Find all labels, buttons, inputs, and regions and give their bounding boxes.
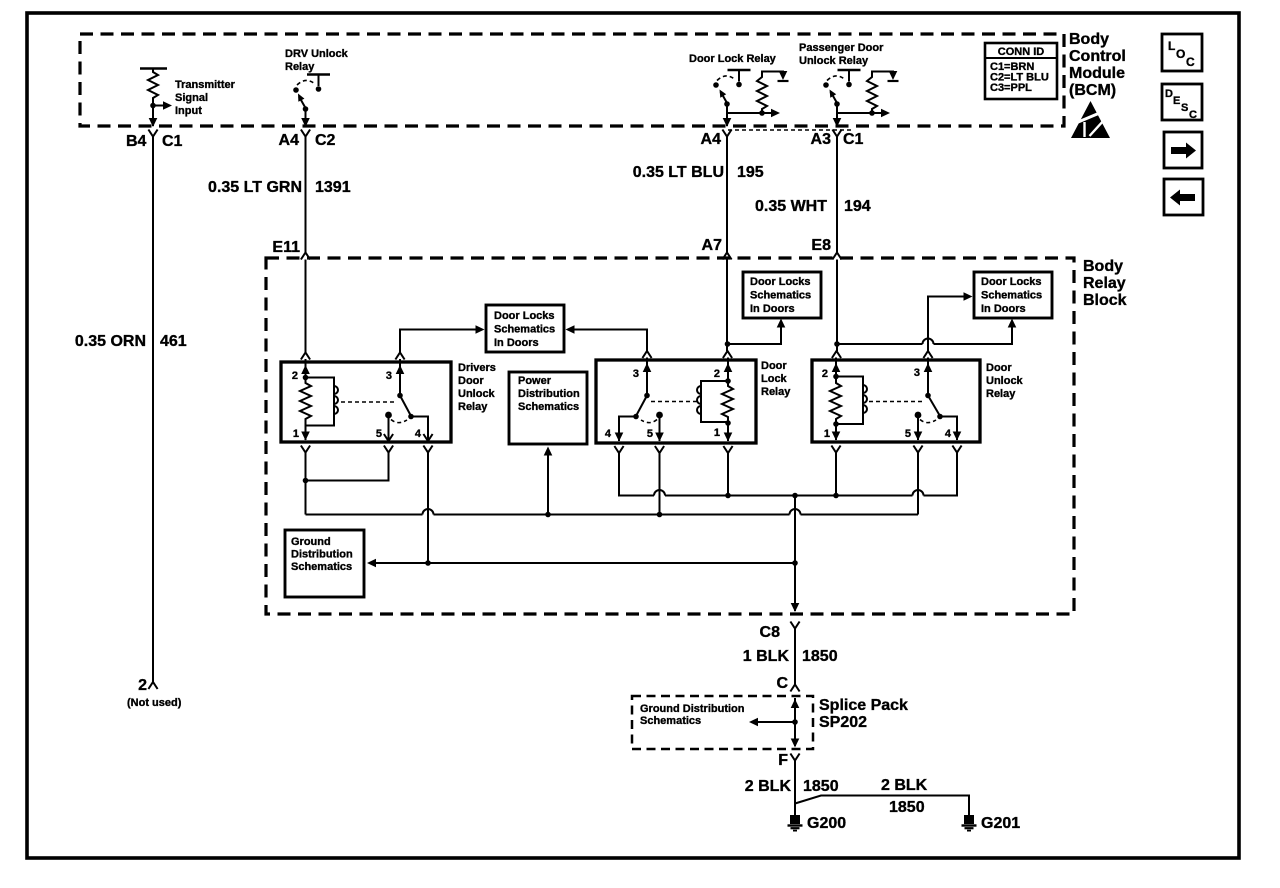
svg-text:D: D [1165, 88, 1173, 100]
U2 coil [697, 378, 733, 441]
svg-text:4: 4 [945, 428, 952, 440]
wire 0.35 LT GRN 1391 [305, 137, 307, 253]
nav button next (right arrow) [1164, 132, 1202, 168]
svg-text:C: C [1189, 109, 1197, 121]
label: Body Control Module (BCM) [1069, 31, 1126, 99]
U2 pin 5 contact [647, 412, 664, 453]
box: Ground Distribution Schematics [285, 530, 364, 597]
U3 pin 5 contact [905, 412, 923, 453]
wire: B4 to connector, down arrow into BCM border [149, 106, 158, 128]
wire: 0.35 ORN 461 [152, 137, 154, 683]
ESD sensitive device symbol [1071, 101, 1110, 138]
label 0.35 WHT 194 [755, 198, 871, 215]
node 2 (Not used) terminal [127, 677, 182, 709]
wire 0.35 WHT 194 [836, 137, 838, 253]
svg-text:In Doors: In Doors [981, 303, 1026, 315]
label Drivers Door Unlock Relay [458, 362, 496, 413]
wire: U2 pin1 down to ground bus [727, 453, 729, 496]
svg-text:Relay: Relay [986, 388, 1016, 400]
svg-text:Relay: Relay [458, 401, 488, 413]
svg-text:5: 5 [647, 428, 653, 440]
svg-text:In Doors: In Doors [750, 303, 795, 315]
svg-text:Transmitter: Transmitter [175, 79, 236, 91]
node C connector [776, 675, 799, 692]
label Door Lock Relay [761, 360, 791, 398]
svg-text:Signal: Signal [175, 92, 208, 104]
svg-text:Control: Control [1069, 48, 1126, 65]
U2 pin 3 and switch [605, 351, 652, 453]
splice pack internals: Ground Distribution Schematics note and arrow [640, 698, 799, 748]
Body Control Module (BCM) dashed box [80, 34, 1064, 126]
U3 pin 3 and switch [914, 351, 962, 453]
U3 pin 1 [824, 428, 841, 453]
svg-text:C3=PPL: C3=PPL [990, 82, 1032, 94]
wire: U1 pin4 down to ground line [427, 453, 429, 564]
svg-text:Drivers: Drivers [458, 362, 496, 374]
svg-text:Distribution: Distribution [291, 549, 353, 561]
wire: A4 down arrow into BCM border [723, 109, 732, 127]
node A7 connector [702, 237, 732, 260]
node A4 connector [701, 130, 732, 149]
svg-text:1850: 1850 [889, 799, 925, 816]
svg-text:C: C [776, 675, 788, 692]
wire: U1 pin3 to left door locks box with right arrow [400, 325, 485, 352]
U1 mechanical dashed link [341, 401, 396, 403]
wire: U2 pin5 down to power bus [659, 453, 661, 515]
U1 coil [300, 375, 338, 440]
svg-text:5: 5 [376, 428, 382, 440]
Splice Pack SP202 dashed box [632, 696, 813, 749]
svg-text:0.35 LT BLU: 0.35 LT BLU [633, 164, 724, 181]
svg-text:Unlock: Unlock [458, 388, 496, 400]
label Splice Pack SP202 [819, 697, 908, 731]
wire: A7 to U2 pin 2 with branch up arrow into middle box [723, 260, 785, 359]
svg-text:C2: C2 [315, 132, 336, 149]
svg-text:Block: Block [1083, 292, 1127, 309]
svg-text:B4: B4 [126, 133, 147, 150]
svg-text:Door: Door [761, 360, 787, 372]
svg-text:Door Locks: Door Locks [750, 276, 811, 288]
svg-text:Lock: Lock [761, 373, 788, 385]
svg-text:E8: E8 [811, 237, 831, 254]
U2 mechanical dashed link [651, 401, 697, 403]
wire: A4/C2 down arrow into BCM border [301, 109, 310, 127]
svg-text:A7: A7 [702, 237, 723, 254]
svg-text:Splice Pack: Splice Pack [819, 697, 908, 714]
U1 pin 3 and switch [386, 353, 433, 453]
label 2 BLK 1850 (branch) [881, 777, 928, 816]
svg-text:G200: G200 [807, 815, 846, 832]
wire E11 to relay pin 2 [301, 260, 310, 384]
wire: U3 pin1 down to ground bus [835, 453, 837, 496]
ground G200 [788, 815, 847, 832]
node A4/C2 connector [279, 130, 336, 150]
svg-text:Ground: Ground [291, 536, 331, 548]
svg-text:A4: A4 [701, 131, 722, 148]
svg-text:A3: A3 [811, 131, 832, 148]
svg-text:2: 2 [292, 370, 298, 382]
wire: U3 pin3 up over wire then right arrow into right box [928, 292, 973, 351]
svg-text:In Doors: In Doors [494, 337, 539, 349]
svg-text:0.35 LT GRN: 0.35 LT GRN [208, 179, 302, 196]
svg-text:(Not used): (Not used) [127, 697, 182, 709]
box: Power Distribution Schematics [509, 372, 587, 444]
U3 contact dashed arc [920, 420, 936, 423]
U2 pin 1 [714, 427, 733, 453]
svg-text:Schematics: Schematics [518, 401, 579, 413]
svg-text:1 BLK: 1 BLK [743, 648, 790, 665]
nav button LOC [1162, 34, 1202, 71]
svg-text:0.35 WHT: 0.35 WHT [755, 198, 827, 215]
label 0.35 ORN 461 [75, 333, 187, 350]
svg-text:F: F [778, 752, 788, 769]
box: Door Locks Schematics In Doors (middle) [743, 272, 821, 318]
svg-text:Door: Door [458, 375, 484, 387]
label 2 BLK 1850 [745, 778, 839, 795]
svg-text:Relay: Relay [761, 386, 791, 398]
svg-text:E: E [1173, 95, 1180, 107]
box: Door Locks Schematics In Doors (right) [974, 272, 1052, 318]
svg-text:G201: G201 [981, 815, 1020, 832]
svg-text:Distribution: Distribution [518, 388, 580, 400]
U2 contact dashed arc [641, 420, 657, 423]
svg-text:1391: 1391 [315, 179, 351, 196]
svg-text:Body: Body [1069, 31, 1109, 48]
svg-text:Relay: Relay [285, 61, 315, 73]
relay U1: Drivers Door Unlock Relay box [281, 362, 451, 442]
svg-text:Schematics: Schematics [291, 561, 352, 573]
svg-text:Schematics: Schematics [494, 324, 555, 336]
svg-text:Door Lock Relay: Door Lock Relay [689, 53, 777, 65]
label: Transmitter Signal Input with arrow [150, 79, 235, 117]
svg-text:E11: E11 [272, 239, 300, 256]
U3 mechanical dashed link [869, 401, 924, 403]
label: Body Relay Block [1083, 258, 1127, 309]
nav button back (left arrow) [1164, 179, 1203, 215]
wire: power bus (bus2) [306, 509, 919, 517]
svg-text:Door Locks: Door Locks [494, 310, 555, 322]
box: Door Locks Schematics In Doors (left) [486, 305, 564, 352]
wire: U2 pin3 to left door locks box with left arrow [566, 325, 648, 351]
svg-text:3: 3 [914, 367, 920, 379]
svg-text:C1: C1 [162, 133, 183, 150]
U1 pin 5 contact [376, 412, 393, 453]
svg-text:2 BLK: 2 BLK [881, 777, 928, 794]
ground G201 [962, 815, 1021, 832]
U3 coil [830, 374, 867, 440]
svg-text:Passenger Door: Passenger Door [799, 42, 884, 54]
svg-text:Module: Module [1069, 65, 1125, 82]
svg-text:Door: Door [986, 362, 1012, 374]
svg-text:Schematics: Schematics [981, 290, 1042, 302]
svg-text:Ground Distribution: Ground Distribution [640, 703, 745, 715]
connector group dotted line A4-A3 [728, 129, 853, 131]
CONN ID table [985, 43, 1057, 99]
svg-text:4: 4 [415, 428, 422, 440]
wire: ground line to ground distribution box with left arrow [367, 559, 798, 568]
wire: ground bus (bus1) [619, 453, 957, 499]
node C8 connector [760, 622, 800, 642]
svg-text:C8: C8 [760, 624, 781, 641]
node F connector [778, 752, 799, 769]
resistor: transmitter signal input [140, 69, 167, 106]
wire: A3/C1 down arrow into BCM border [833, 109, 842, 127]
svg-text:1: 1 [714, 427, 720, 439]
svg-text:3: 3 [386, 370, 392, 382]
label Door Unlock Relay [986, 362, 1024, 400]
wire: power feed up arrow into power box [544, 447, 553, 518]
svg-text:Power: Power [518, 375, 552, 387]
svg-text:Input: Input [175, 105, 202, 117]
node A3/C1 connector [811, 130, 864, 149]
wire 2 BLK 1850 to G200 [794, 761, 796, 818]
svg-text:(BCM): (BCM) [1069, 82, 1116, 99]
wire 1 BLK 1850 [794, 629, 796, 685]
svg-text:C1: C1 [843, 131, 864, 148]
relay U2: Door Lock Relay box [596, 360, 756, 443]
svg-text:DRV Unlock: DRV Unlock [285, 48, 349, 60]
U3 pin 2 [822, 358, 840, 381]
svg-text:195: 195 [737, 164, 764, 181]
svg-text:2: 2 [714, 368, 720, 380]
wire: U3 pin5 down to power bus [917, 453, 919, 515]
svg-text:1850: 1850 [803, 778, 839, 795]
svg-text:Schematics: Schematics [640, 715, 701, 727]
wire: main ground wire down through relay block border [791, 496, 800, 613]
wire branch to G201 [795, 796, 969, 818]
label 0.35 LT GRN 1391 [208, 179, 351, 196]
wire: E8 down to U3 pin 2 with branch to right box up arrow [832, 260, 1016, 359]
svg-text:4: 4 [605, 428, 612, 440]
svg-text:194: 194 [844, 198, 871, 215]
svg-text:1: 1 [824, 428, 830, 440]
svg-text:S: S [1181, 102, 1188, 114]
svg-text:3: 3 [633, 368, 639, 380]
relay: Door Lock Relay (BCM) [689, 53, 789, 117]
svg-text:C: C [1186, 55, 1195, 69]
svg-text:CONN ID: CONN ID [998, 46, 1045, 58]
U1 pin 1 [293, 428, 310, 453]
U1 pin 2 [292, 365, 310, 382]
svg-text:A4: A4 [279, 132, 300, 149]
label 1 BLK 1850 [743, 648, 838, 665]
Body Relay Block dashed box [266, 258, 1074, 614]
svg-text:5: 5 [905, 428, 911, 440]
svg-text:Door Locks: Door Locks [981, 276, 1042, 288]
svg-text:1850: 1850 [802, 648, 838, 665]
svg-text:0.35 ORN: 0.35 ORN [75, 333, 146, 350]
svg-text:2: 2 [138, 677, 147, 694]
svg-text:O: O [1176, 47, 1185, 61]
nav button DESC [1162, 84, 1202, 121]
svg-text:Schematics: Schematics [750, 290, 811, 302]
svg-text:2 BLK: 2 BLK [745, 778, 792, 795]
wire: U1 pin1 to pin5 U-link [303, 453, 389, 484]
svg-text:Body: Body [1083, 258, 1123, 275]
U1 contact dashed arc [391, 420, 407, 423]
wire 0.35 LT BLU 195 [726, 137, 728, 253]
svg-text:Relay: Relay [1083, 275, 1126, 292]
svg-text:1: 1 [293, 428, 299, 440]
relay U3: Door Unlock Relay box [812, 360, 980, 442]
relay: DRV Unlock Relay (BCM switch) [285, 48, 349, 112]
relay: Passenger Door Unlock Relay (BCM) [799, 42, 899, 117]
svg-text:L: L [1168, 39, 1175, 53]
node E8 connector [811, 237, 841, 260]
svg-text:2: 2 [822, 368, 828, 380]
node B4/C1 connector [126, 130, 183, 151]
svg-text:461: 461 [160, 333, 187, 350]
svg-text:Unlock: Unlock [986, 375, 1024, 387]
label 0.35 LT BLU 195 [633, 164, 764, 181]
U2 pin 2 [714, 358, 732, 382]
svg-text:SP202: SP202 [819, 714, 867, 731]
node E11 connector [272, 239, 310, 260]
wire: U1 pin1 down to power bus [305, 481, 307, 515]
svg-text:Unlock Relay: Unlock Relay [799, 55, 869, 67]
